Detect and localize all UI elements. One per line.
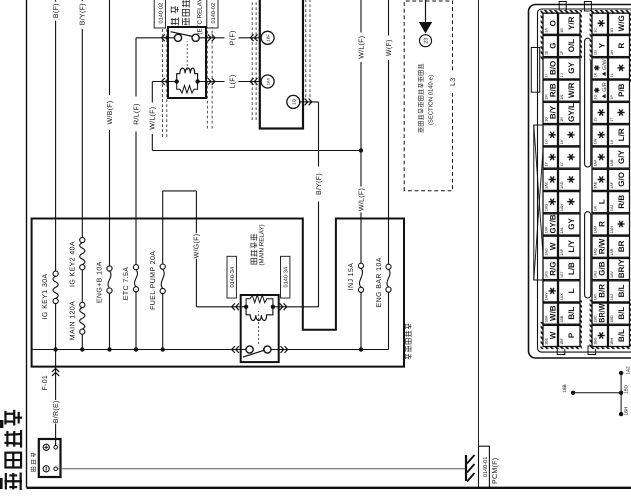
svg-text:1AB: 1AB xyxy=(610,159,614,167)
svg-text:1BD: 1BD xyxy=(610,315,614,323)
svg-text:1AX: 1AX xyxy=(560,293,564,301)
svg-text:GY/L: GY/L xyxy=(567,103,576,122)
svg-text:W/G(F): W/G(F) xyxy=(193,234,201,259)
svg-text:P: P xyxy=(567,332,576,338)
svg-text:1L: 1L xyxy=(610,73,614,77)
svg-text:1AH: 1AH xyxy=(560,204,564,212)
svg-text:R/L(F): R/L(F) xyxy=(132,103,140,125)
svg-text:1AV: 1AV xyxy=(610,271,614,278)
svg-text:1AC: 1AC xyxy=(545,181,549,189)
svg-text:1BH: 1BH xyxy=(610,337,614,345)
svg-text:W/G: W/G xyxy=(617,15,626,31)
svg-text:ETC 7.5A: ETC 7.5A xyxy=(123,267,130,301)
svg-text:R/B: R/B xyxy=(617,195,626,209)
svg-text:W/R: W/R xyxy=(567,82,576,98)
svg-text:1AR: 1AR xyxy=(610,248,614,256)
svg-text:B(F): B(F) xyxy=(52,3,60,18)
svg-text:B/R: B/R xyxy=(598,284,607,298)
svg-text:1AA: 1AA xyxy=(594,159,598,167)
svg-text:R/B: R/B xyxy=(549,83,558,97)
svg-text:0140-02: 0140-02 xyxy=(211,3,217,24)
svg-text:L/B: L/B xyxy=(567,262,576,275)
svg-text:L/Y: L/Y xyxy=(567,239,576,252)
svg-text:W/L(F): W/L(F) xyxy=(357,36,365,59)
svg-text:1AG: 1AG xyxy=(545,204,549,212)
svg-text:1Z: 1Z xyxy=(560,161,564,166)
svg-text:1AL: 1AL xyxy=(560,227,564,234)
svg-text:L(F): L(F) xyxy=(228,74,236,88)
svg-text:G/W: G/W xyxy=(602,58,608,70)
svg-text:IG KEY1 30A: IG KEY1 30A xyxy=(42,273,49,319)
svg-text:1BD: 1BD xyxy=(623,384,628,394)
svg-text:IG KEY2 40A: IG KEY2 40A xyxy=(69,241,76,287)
svg-text:1C: 1C xyxy=(594,28,598,33)
svg-text:1AJ: 1AJ xyxy=(610,205,614,212)
svg-text:B/Y: B/Y xyxy=(549,105,558,119)
svg-text:B/L: B/L xyxy=(617,329,626,342)
svg-text:G/R: G/R xyxy=(602,82,608,92)
svg-text:1D: 1D xyxy=(610,28,614,33)
svg-text:L: L xyxy=(567,288,576,293)
svg-text:1P: 1P xyxy=(610,95,614,100)
svg-text:1F: 1F xyxy=(560,50,564,55)
svg-text:B/L: B/L xyxy=(567,307,576,320)
svg-text:1U: 1U xyxy=(545,139,549,144)
svg-text:W/B: W/B xyxy=(549,305,558,321)
svg-text:G: G xyxy=(549,42,558,48)
svg-text:1AX: 1AX xyxy=(265,77,270,85)
svg-text:1K: 1K xyxy=(594,72,598,77)
svg-text:(ETC RELAY: (ETC RELAY xyxy=(197,0,204,35)
svg-text:1X: 1X xyxy=(610,139,614,144)
svg-text:1H: 1H xyxy=(610,50,614,55)
svg-text:G/B: G/B xyxy=(598,261,607,275)
svg-text:BR/W: BR/W xyxy=(598,303,607,322)
svg-text:W/L(F): W/L(F) xyxy=(357,188,365,211)
svg-text:L3: L3 xyxy=(450,77,457,86)
svg-text:GY: GY xyxy=(567,218,576,230)
svg-text:1O: 1O xyxy=(594,95,598,100)
svg-text:1J: 1J xyxy=(560,73,564,77)
svg-text:1AZ: 1AZ xyxy=(610,293,614,301)
svg-text:W: W xyxy=(549,242,558,250)
svg-text:P/B: P/B xyxy=(617,83,626,97)
svg-text:G/Y: G/Y xyxy=(617,150,626,164)
svg-text:MAIN 120A: MAIN 120A xyxy=(69,301,76,340)
svg-text:18B: 18B xyxy=(562,384,568,393)
svg-text:1W: 1W xyxy=(594,138,598,144)
svg-text:FUEL PUMP 20A: FUEL PUMP 20A xyxy=(150,251,157,310)
svg-text:1BG: 1BG xyxy=(594,337,598,345)
svg-text:1AE: 1AE xyxy=(594,181,598,189)
svg-text:1BF: 1BF xyxy=(265,34,270,42)
svg-text:B/L: B/L xyxy=(617,284,626,297)
svg-text:1AD: 1AD xyxy=(560,181,564,189)
svg-text:B/Y(F): B/Y(F) xyxy=(79,3,87,25)
svg-text:INJ 15A: INJ 15A xyxy=(348,263,355,291)
svg-text:BR: BR xyxy=(617,240,626,252)
svg-text:R/W: R/W xyxy=(598,238,607,254)
svg-text:1T: 1T xyxy=(610,117,614,122)
svg-text:B/L: B/L xyxy=(617,307,626,320)
svg-text:(MAIN RELAY): (MAIN RELAY) xyxy=(259,224,266,265)
svg-text:F-01: F-01 xyxy=(42,375,49,391)
svg-text:1BH: 1BH xyxy=(623,407,628,416)
svg-text:1Q: 1Q xyxy=(292,98,297,105)
svg-text:0140-01: 0140-01 xyxy=(483,457,489,478)
svg-text:1BF: 1BF xyxy=(560,337,564,345)
svg-text:(SECTION 0140-e): (SECTION 0140-e) xyxy=(427,75,434,125)
svg-text:1A: 1A xyxy=(545,28,549,33)
svg-text:O: O xyxy=(549,20,558,26)
svg-text:Y: Y xyxy=(598,42,607,48)
svg-text:0140-02: 0140-02 xyxy=(158,3,164,24)
svg-text:GY: GY xyxy=(567,61,576,73)
svg-text:PCM(F): PCM(F) xyxy=(491,458,499,484)
svg-text:G/O: G/O xyxy=(617,172,626,187)
svg-text:BR/Y: BR/Y xyxy=(617,258,626,278)
svg-text:0140-34: 0140-34 xyxy=(283,267,289,288)
svg-text:1B: 1B xyxy=(560,28,564,33)
svg-text:1V: 1V xyxy=(560,139,564,144)
svg-text:1R: 1R xyxy=(560,117,564,122)
svg-text:R: R xyxy=(598,221,607,227)
svg-text:Y/R: Y/R xyxy=(567,16,576,30)
svg-text:O/L: O/L xyxy=(567,39,576,52)
svg-text:W: W xyxy=(549,331,558,339)
svg-text:ENG BAR 10A: ENG BAR 10A xyxy=(376,257,383,307)
svg-text:0140-34: 0140-34 xyxy=(230,267,236,288)
svg-text:1G: 1G xyxy=(594,50,598,55)
svg-text:L/R: L/R xyxy=(617,128,626,141)
svg-text:R: R xyxy=(617,42,626,48)
svg-text:1AZ: 1AZ xyxy=(626,366,631,375)
svg-text:B/Y(F): B/Y(F) xyxy=(315,173,323,195)
svg-text:1Y: 1Y xyxy=(545,161,549,166)
svg-text:R/G: R/G xyxy=(549,261,558,275)
svg-text:1N: 1N xyxy=(560,95,564,100)
svg-text:1S: 1S xyxy=(594,117,598,122)
svg-text:W(F): W(F) xyxy=(385,39,393,56)
svg-text:1AP: 1AP xyxy=(560,248,564,256)
svg-text:1AW: 1AW xyxy=(545,292,549,300)
svg-text:1E: 1E xyxy=(545,50,549,55)
svg-text:W/B(F): W/B(F) xyxy=(106,101,114,125)
svg-text:GY/B: GY/B xyxy=(549,214,558,233)
svg-text:B/O: B/O xyxy=(549,61,558,75)
svg-text:1AF: 1AF xyxy=(610,181,614,189)
svg-text:1AN: 1AN xyxy=(610,226,614,234)
svg-text:1AT: 1AT xyxy=(560,271,564,278)
svg-text:B/R(E): B/R(E) xyxy=(52,400,60,423)
svg-text:W/L(F): W/L(F) xyxy=(149,107,157,130)
svg-text:1AM: 1AM xyxy=(594,226,598,234)
svg-text:ENG+B 10A: ENG+B 10A xyxy=(97,261,104,303)
svg-text:1BB: 1BB xyxy=(560,315,564,323)
svg-text:L: L xyxy=(598,199,607,204)
svg-text:23: 23 xyxy=(424,38,430,44)
svg-text:1AI: 1AI xyxy=(594,206,598,212)
svg-text:P(F): P(F) xyxy=(228,30,236,45)
